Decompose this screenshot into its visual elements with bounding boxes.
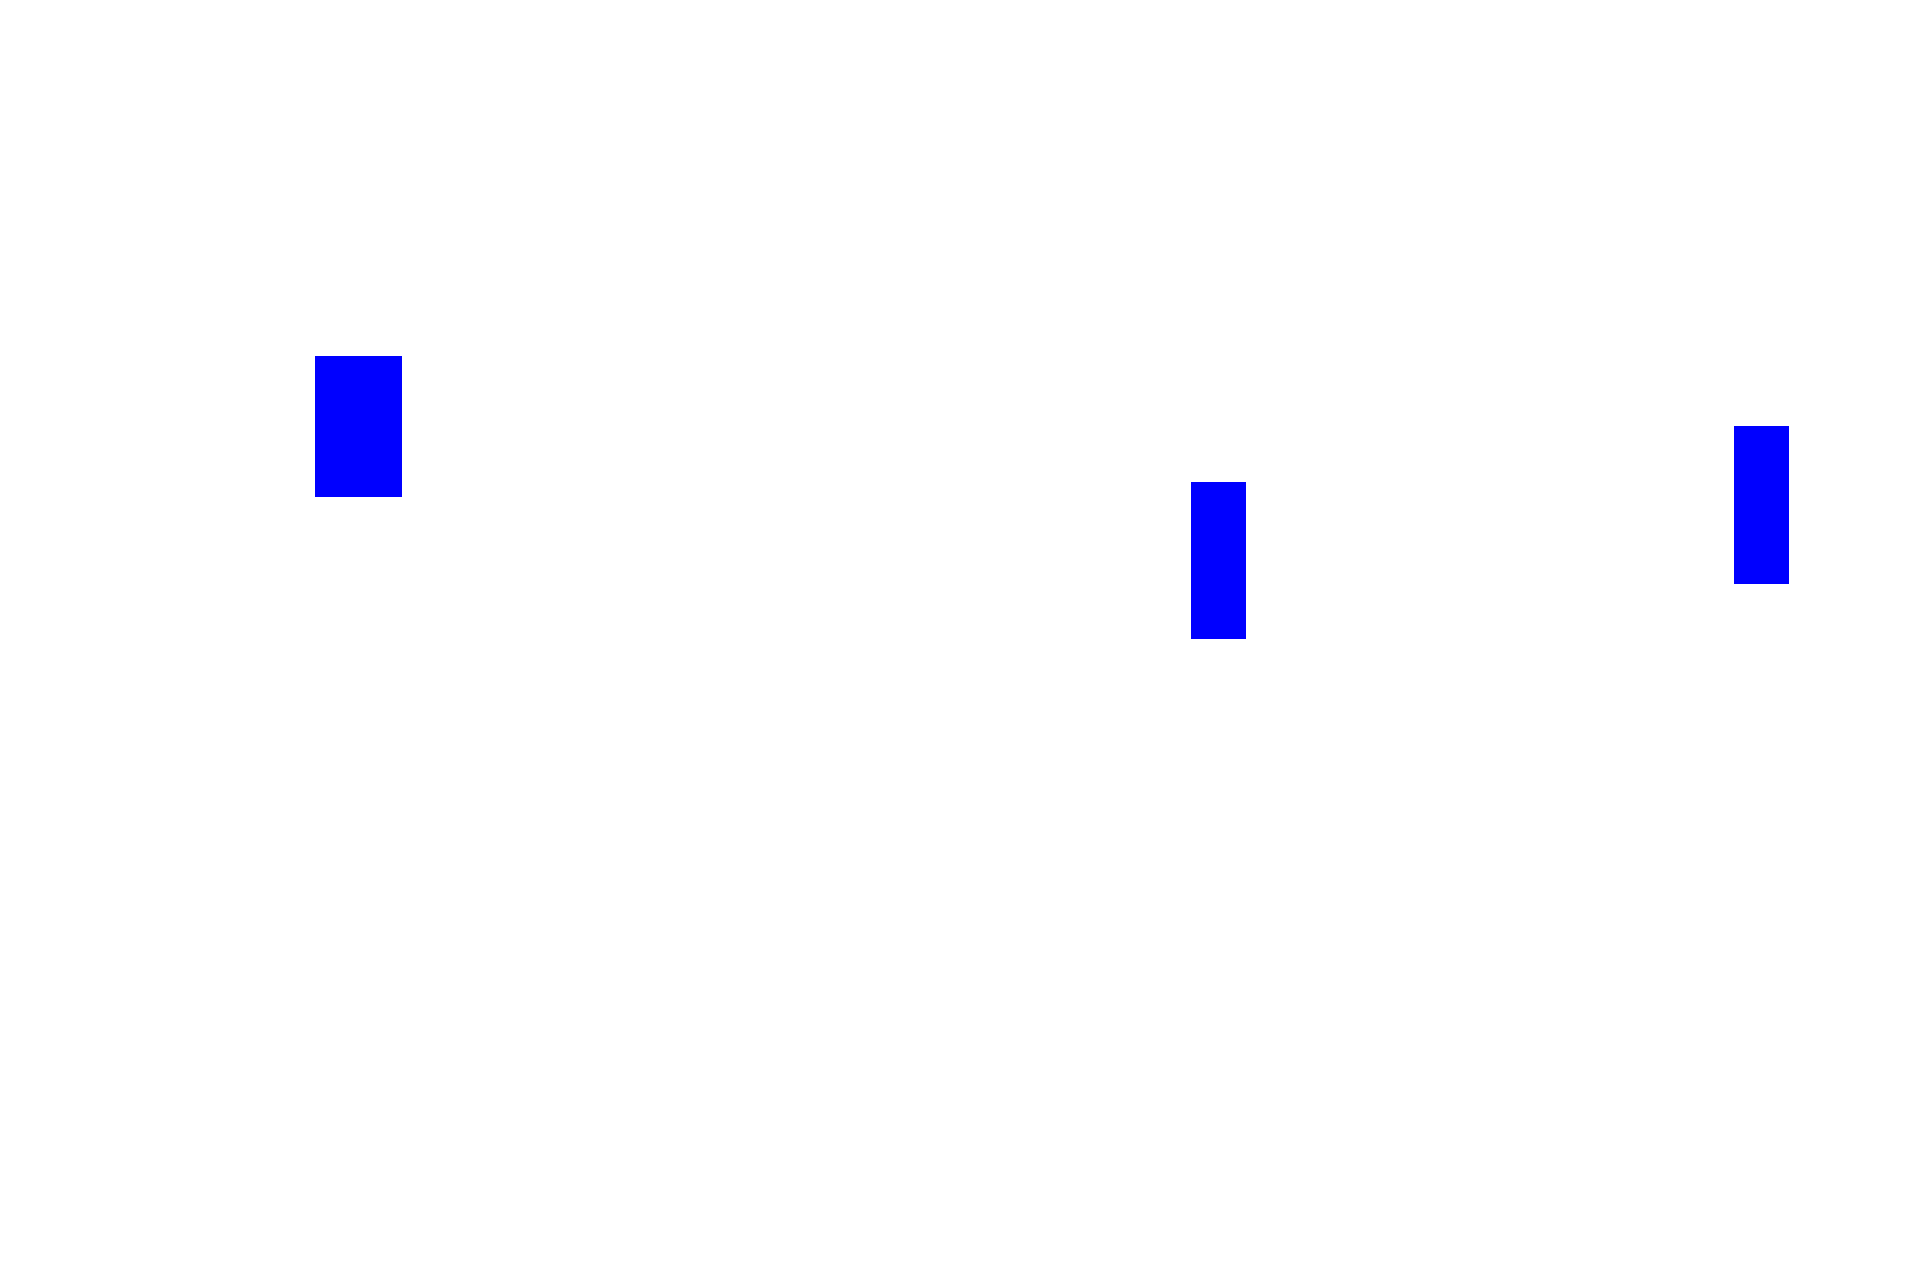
blue rectangle 2 (center) <box>1191 482 1246 639</box>
blue rectangle 3 (right) <box>1734 426 1789 584</box>
blue rectangle 1 (left) <box>315 356 402 497</box>
